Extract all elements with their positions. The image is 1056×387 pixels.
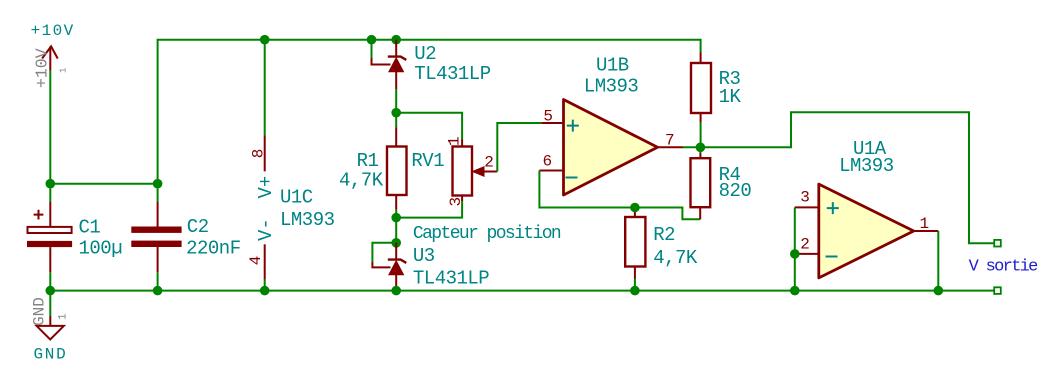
pin 1 output (914, 230, 939, 232)
svg-text:220nF: 220nF (186, 238, 241, 260)
svg-text:LM393: LM393 (839, 155, 894, 177)
node rail GND (46, 286, 56, 296)
resistor R1 (339, 113, 407, 218)
pin 7 output (658, 146, 684, 148)
wire +10V stem (49, 71, 51, 184)
resistor R2 (625, 208, 698, 291)
op-amp power unit U1C (247, 40, 334, 291)
svg-text:TL431LP: TL431LP (413, 268, 489, 290)
svg-text:1K: 1K (719, 86, 742, 108)
svg-text:LM393: LM393 (280, 209, 335, 231)
shunt reference U3 TL431LP (372, 243, 489, 291)
svg-text:+10V: +10V (32, 48, 51, 88)
wire end square bottom (994, 287, 1001, 294)
wire U1A inputs to rail (794, 207, 796, 290)
power flag +10V (31, 22, 75, 88)
svg-text:U1B: U1B (596, 54, 629, 76)
node at C2 top (153, 179, 163, 189)
node rail U3 (391, 286, 401, 296)
svg-text:3: 3 (447, 197, 465, 207)
svg-text:4,7K: 4,7K (653, 247, 698, 269)
shunt reference U2 TL431LP (372, 40, 491, 113)
node rail U1A output (934, 286, 944, 296)
resistor R3 (691, 52, 742, 147)
wire left link (50, 183, 157, 185)
capacitor C1 (27, 184, 122, 291)
pin 5 (541, 122, 563, 124)
svg-text:V+: V+ (255, 176, 277, 199)
svg-text:C1: C1 (79, 217, 101, 239)
svg-text:2: 2 (484, 154, 494, 172)
svg-text:4: 4 (247, 256, 265, 266)
wire bottom rail (50, 290, 994, 292)
svg-text:1: 1 (920, 215, 930, 233)
node feedback/R2 (630, 203, 640, 213)
node U3 ref (391, 238, 401, 248)
node at +10V/C1 (46, 179, 56, 189)
capacitor C2 (131, 184, 240, 291)
node rail/U1C V+ (260, 35, 270, 45)
node rail U1C (260, 286, 270, 296)
node rail/U2 ref (367, 35, 377, 45)
svg-text:R1: R1 (357, 150, 379, 172)
svg-text:1: 1 (57, 313, 69, 320)
pin 3 (795, 206, 819, 208)
svg-text:GND: GND (31, 297, 49, 326)
svg-text:U3: U3 (413, 245, 435, 267)
svg-text:100µ: 100µ (79, 238, 123, 260)
svg-text:V-: V- (255, 218, 277, 241)
op-amp U1B (564, 54, 658, 195)
svg-text:V sortie: V sortie (969, 257, 1039, 276)
op-amp U1A (819, 138, 914, 278)
svg-text:820: 820 (719, 180, 752, 202)
svg-text:Capteur position: Capteur position (413, 224, 561, 244)
resistor R4 (691, 147, 752, 207)
svg-text:RV1: RV1 (411, 150, 444, 172)
svg-text:2: 2 (800, 236, 810, 254)
node rail/U2 cathode (391, 35, 401, 45)
svg-text:3: 3 (800, 189, 810, 207)
pin R4 bottom (699, 207, 701, 219)
node output U1B (696, 143, 706, 153)
svg-text:+10V: +10V (31, 22, 75, 40)
svg-text:R2: R2 (653, 224, 675, 246)
wire output to V sortie (700, 112, 994, 243)
node pin2 (790, 249, 800, 259)
node rail C2 (153, 286, 163, 296)
svg-text:5: 5 (543, 107, 553, 125)
wire mid link to RV1 (396, 113, 462, 140)
svg-text:U2: U2 (414, 43, 436, 65)
svg-text:TL431LP: TL431LP (414, 63, 490, 85)
wire pin1 down (937, 231, 939, 291)
pin 6 (539, 170, 563, 172)
svg-text:1: 1 (59, 68, 69, 73)
wire RV1 wiper to U1B pin5 (497, 123, 541, 172)
wire top rail (158, 40, 701, 184)
wire down to U3 (395, 218, 397, 243)
wire end square top (994, 240, 1001, 247)
pin 2 (795, 253, 819, 255)
node R1/RV1 bottom (391, 213, 401, 223)
svg-text:8: 8 (250, 149, 268, 159)
svg-text:U1C: U1C (280, 186, 313, 208)
wire pin6 feedback (539, 171, 700, 220)
node rail U1A inputs (790, 286, 800, 296)
potentiometer RV1 (396, 136, 497, 217)
wire output to node (683, 146, 700, 148)
svg-text:6: 6 (543, 153, 553, 171)
svg-text:4,7K: 4,7K (339, 170, 384, 192)
svg-text:LM393: LM393 (584, 75, 639, 97)
svg-text:GND: GND (34, 346, 68, 364)
node rail R2 (630, 286, 640, 296)
node U2 anode (391, 108, 401, 118)
svg-text:7: 7 (665, 132, 675, 150)
svg-text:1: 1 (446, 136, 464, 146)
svg-text:C2: C2 (187, 216, 209, 238)
ground symbol GND (31, 291, 70, 364)
